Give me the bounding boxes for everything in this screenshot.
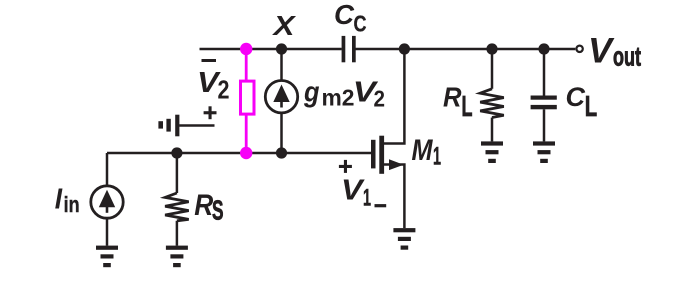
svg-text:g: g xyxy=(303,77,320,109)
svg-text:I: I xyxy=(55,183,63,215)
label RL xyxy=(443,82,473,124)
transistor M1 xyxy=(371,49,404,228)
label plus of V2 xyxy=(204,106,217,119)
node dot X (black, top) xyxy=(276,43,287,54)
ground M1 xyxy=(393,228,415,250)
resistor RS xyxy=(165,193,189,221)
label RS xyxy=(194,189,223,226)
capacitor CC xyxy=(342,36,356,62)
svg-text:R: R xyxy=(443,82,462,113)
svg-text:2: 2 xyxy=(374,85,386,111)
terminal Vout (open circle) xyxy=(576,46,582,52)
svg-text:m2: m2 xyxy=(322,85,355,111)
current source Iin xyxy=(91,186,123,218)
ground Iin xyxy=(96,246,118,268)
label minus of V1 xyxy=(375,204,387,207)
svg-text:V: V xyxy=(341,175,365,207)
dependent current source gm2V2 xyxy=(265,81,297,113)
label plus of V1 xyxy=(339,160,352,173)
wire top rail left segment (node X rail) xyxy=(200,48,342,51)
label Iin xyxy=(55,183,80,217)
wire Iin top stub xyxy=(106,153,109,185)
svg-text:S: S xyxy=(212,195,224,226)
svg-text:M: M xyxy=(412,134,434,167)
node dot RS (bottom rail) xyxy=(171,147,182,158)
wire bottom rail (Iin to gate) xyxy=(107,152,371,155)
svg-text:V: V xyxy=(588,31,615,70)
node dot gm2 bottom (bottom rail) xyxy=(276,147,287,158)
wire sideways ground stub xyxy=(179,124,214,127)
resistor RL xyxy=(480,89,504,118)
wire CL top stub xyxy=(543,49,546,96)
resistor V2 box (magenta) xyxy=(241,81,255,114)
wire magenta bottom stub xyxy=(245,116,248,154)
label V1 xyxy=(341,175,371,212)
ground CL xyxy=(533,141,555,163)
svg-text:L: L xyxy=(585,91,597,123)
node dot magenta top xyxy=(240,43,252,55)
svg-text:1: 1 xyxy=(363,185,371,212)
svg-text:L: L xyxy=(462,91,473,123)
capacitor CL xyxy=(531,96,557,110)
ground RS xyxy=(166,246,188,268)
ground RL xyxy=(481,141,503,163)
label M1 xyxy=(412,134,442,170)
wire gm2 source top stub xyxy=(280,49,283,81)
wire RL top stub xyxy=(491,49,494,89)
wire top rail right segment (Cc to Vout) xyxy=(356,48,576,51)
svg-text:1: 1 xyxy=(433,142,441,170)
wire RS top stub xyxy=(176,153,179,193)
wire RS bottom stub xyxy=(176,221,179,246)
svg-text:2: 2 xyxy=(218,74,230,104)
label minus of V2 xyxy=(202,59,217,62)
node dot drain (top rail) xyxy=(399,43,410,54)
node dot magenta bottom xyxy=(240,147,252,159)
svg-text:C: C xyxy=(334,0,355,30)
node dot CL (top rail) xyxy=(538,43,549,54)
svg-text:X: X xyxy=(271,10,297,41)
label V2 xyxy=(197,67,230,105)
wire Iin bottom stub xyxy=(106,219,109,246)
svg-text:R: R xyxy=(194,189,213,222)
label Vout xyxy=(588,31,641,71)
label CL xyxy=(566,82,598,123)
label gm2V2 xyxy=(303,76,385,111)
svg-text:out: out xyxy=(613,42,641,72)
wire CL bottom stub xyxy=(543,109,546,141)
node dot RL (top rail) xyxy=(486,43,497,54)
label CC xyxy=(334,0,367,37)
wire magenta top stub xyxy=(245,49,248,80)
svg-text:C: C xyxy=(354,11,367,37)
svg-text:C: C xyxy=(566,82,586,112)
wire RL bottom stub xyxy=(491,118,494,142)
wire gm2 source bottom stub xyxy=(280,113,283,154)
svg-text:in: in xyxy=(64,192,80,217)
ground sideways (V2 plus reference) xyxy=(158,115,179,137)
